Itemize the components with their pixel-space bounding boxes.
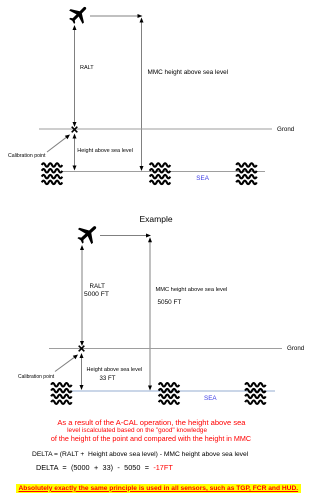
airplane icon (top) xyxy=(65,1,93,29)
wire: MMC height vertical line (top) xyxy=(140,18,144,172)
label Calibration point (bottom) xyxy=(18,374,54,380)
wire: horizontal line plane to MMC line (top) xyxy=(90,14,143,18)
wire: horizontal line plane to MMC line (bottom) xyxy=(100,234,151,238)
sea line blue (bottom) xyxy=(71,390,275,392)
sea waves left (top) xyxy=(42,163,62,184)
label Height above sea level (bottom) xyxy=(87,367,143,373)
sea waves right (top) xyxy=(236,163,256,184)
sea waves middle (bottom) xyxy=(159,383,179,404)
airplane icon (bottom) xyxy=(73,219,102,248)
wire: MMC height vertical line (bottom) xyxy=(148,237,152,390)
wire: height above sea level vertical line (top) xyxy=(73,134,77,171)
DELTA formula line 1 xyxy=(32,451,248,458)
calibration point X marker (bottom) xyxy=(79,346,85,352)
label SEA (bottom) xyxy=(204,395,217,402)
sea waves middle (top) xyxy=(150,163,170,184)
calibration point pointer arrow (top) xyxy=(47,135,70,153)
label 5050 FT xyxy=(158,299,182,306)
wire: RALT vertical line (bottom) xyxy=(80,245,84,346)
red explanation paragraph line 1 xyxy=(57,418,245,427)
calibration point X marker (top) xyxy=(72,127,78,133)
label Grond (top) xyxy=(277,126,294,133)
label 33 FT xyxy=(100,375,116,382)
label Calibration point (top) xyxy=(8,153,46,159)
ground line (bottom) xyxy=(49,348,282,350)
red explanation paragraph line 2 xyxy=(67,427,207,434)
sea waves left (bottom) xyxy=(51,383,71,404)
wire: height above sea level vertical line (bottom) xyxy=(80,353,84,390)
label RALT (top) xyxy=(80,65,94,71)
sea line (top) xyxy=(62,171,265,173)
label Example xyxy=(140,214,173,224)
label MMC height above sea level (top) xyxy=(148,69,229,76)
ground line (top) xyxy=(39,128,272,130)
wire: RALT vertical line (top) xyxy=(73,25,77,127)
calibration point pointer arrow (bottom) xyxy=(55,355,78,372)
label Grond (bottom) xyxy=(287,345,304,352)
label Height above sea level (top) xyxy=(77,148,133,154)
highlighted conclusion line xyxy=(16,484,301,493)
red explanation paragraph line 3 xyxy=(51,434,251,443)
label RALT (bottom) xyxy=(90,283,105,290)
sea waves right (bottom) xyxy=(245,383,265,404)
DELTA formula line 2 xyxy=(36,463,173,472)
label MMC height above sea level (bottom) xyxy=(156,287,228,293)
label 5000 FT xyxy=(84,291,109,298)
label SEA (top) xyxy=(196,175,209,182)
